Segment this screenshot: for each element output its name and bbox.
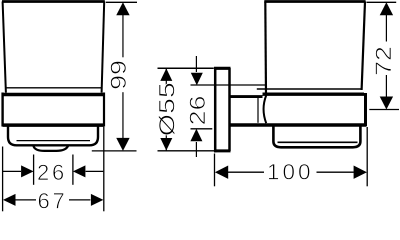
svg-text:26: 26 <box>186 95 210 125</box>
svg-text:99: 99 <box>107 60 131 90</box>
svg-text:67: 67 <box>37 188 67 213</box>
svg-text:100: 100 <box>267 160 314 185</box>
svg-text:Ø55: Ø55 <box>155 82 179 136</box>
svg-text:26: 26 <box>37 160 67 185</box>
svg-text:72: 72 <box>372 46 396 76</box>
